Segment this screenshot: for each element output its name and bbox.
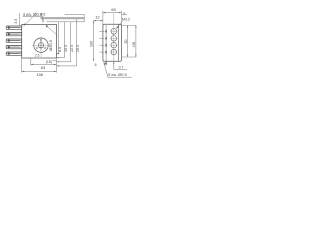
svg-text:100: 100 bbox=[89, 41, 93, 47]
band left end tick bbox=[42, 17, 44, 20]
svg-text:8.5: 8.5 bbox=[58, 47, 62, 52]
bottom leader horizontal bbox=[114, 69, 127, 71]
tick under label 8 bbox=[121, 14, 127, 16]
left view: switch body outline bbox=[22, 25, 57, 59]
staircase right vertical bbox=[83, 14, 85, 21]
hole 4 bbox=[111, 49, 117, 55]
svg-text:4.5: 4.5 bbox=[41, 12, 46, 16]
right dim line 30 bbox=[127, 25, 129, 57]
ext line top-left of strip bbox=[102, 11, 104, 25]
terminal lug 2 bbox=[6, 33, 22, 36]
detent dot lower-left bbox=[36, 47, 37, 48]
terminal lug 1 bbox=[6, 26, 22, 29]
svg-text:2.5: 2.5 bbox=[35, 54, 40, 58]
projection band line 1 bbox=[41, 17, 85, 19]
strip centerline bbox=[113, 13, 115, 65]
svg-text:12: 12 bbox=[95, 15, 100, 20]
terminal lug 5 bbox=[6, 52, 22, 55]
svg-text:30: 30 bbox=[124, 40, 128, 44]
chain dim vertical 4 bbox=[57, 19, 77, 66]
tab tick bbox=[42, 19, 44, 23]
svg-text:136: 136 bbox=[132, 42, 136, 48]
note leader diagonal bbox=[104, 62, 108, 77]
note underline bbox=[108, 76, 132, 78]
right ext line bottom bbox=[122, 56, 137, 58]
mounting strip outline bbox=[103, 24, 122, 61]
chain dim vertical 1 bbox=[57, 22, 59, 54]
ext line top-right of strip bbox=[120, 11, 122, 26]
svg-text:Ø30.5: Ø30.5 bbox=[48, 39, 53, 51]
overall height dim line bbox=[93, 21, 95, 62]
bushing circle bbox=[34, 38, 48, 52]
circle centerlines bbox=[32, 44, 50, 46]
leader M3.2 to top hole bbox=[116, 21, 122, 29]
svg-text:15.5: 15.5 bbox=[64, 45, 68, 52]
detent dot lower-right bbox=[44, 47, 45, 48]
projection band line 3 bbox=[47, 21, 85, 23]
callout leader arrow bbox=[24, 17, 33, 26]
svg-text:60: 60 bbox=[111, 7, 116, 12]
svg-text:138: 138 bbox=[36, 72, 43, 77]
svg-text:63: 63 bbox=[41, 65, 46, 70]
dim line 138 bbox=[22, 70, 57, 72]
svg-text:6: 6 bbox=[95, 63, 97, 67]
projection band line 2 bbox=[41, 18, 85, 20]
bottom ext line left bbox=[21, 58, 23, 72]
svg-text:22.5: 22.5 bbox=[70, 45, 74, 52]
svg-text:3.5: 3.5 bbox=[14, 19, 18, 24]
bottom ext line mid bbox=[30, 58, 32, 65]
dim line 12 bbox=[94, 20, 103, 22]
hole 1 bbox=[111, 29, 117, 35]
svg-text:(18): (18) bbox=[46, 60, 52, 64]
dim line 60 bbox=[103, 12, 122, 14]
extension line left of body bbox=[19, 13, 21, 25]
svg-text:M3.2: M3.2 bbox=[122, 17, 130, 21]
right ext line top bbox=[121, 24, 136, 26]
callout underline bbox=[23, 16, 44, 18]
leader from body top edge bbox=[46, 25, 58, 35]
detent dot top bbox=[40, 39, 41, 40]
strip bend line bbox=[118, 24, 120, 61]
svg-text:8: 8 bbox=[123, 12, 125, 16]
small dim tick for (8) bbox=[53, 60, 57, 62]
svg-text:0.7: 0.7 bbox=[119, 66, 124, 70]
bottom leader vertical bbox=[113, 61, 115, 69]
chain dimension line with diamond arrows bbox=[105, 25, 107, 65]
dim line 63 bbox=[31, 63, 57, 65]
shaft circle with slot bbox=[38, 43, 43, 48]
hole 3 bbox=[111, 42, 117, 48]
chain dim vertical 2 bbox=[57, 22, 65, 58]
left ticks at hole levels bbox=[99, 31, 104, 52]
bottom ext line right bbox=[55, 58, 57, 72]
right dim line 136 bbox=[135, 25, 137, 57]
chain dim vertical 3 bbox=[57, 22, 71, 62]
terminal lug 4 bbox=[6, 46, 22, 49]
hole 2 bbox=[111, 36, 117, 42]
staircase top line bbox=[65, 13, 85, 15]
terminal lug 3 bbox=[6, 39, 22, 42]
svg-text:5 ea. Ø0.5: 5 ea. Ø0.5 bbox=[108, 72, 127, 77]
svg-text:29.5: 29.5 bbox=[76, 45, 80, 52]
